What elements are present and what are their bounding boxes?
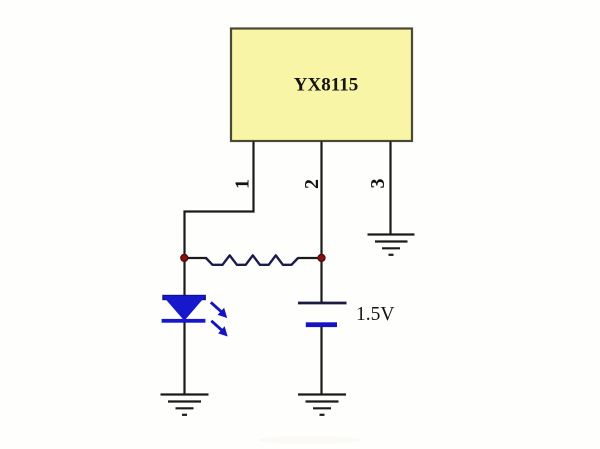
wire pin3 vertical from IC to ground	[389, 142, 391, 235]
wire pin2 vertical from IC to battery	[320, 142, 322, 303]
wire node-to-node horizontal right segment	[298, 257, 322, 259]
svg-text:1.5V: 1.5V	[356, 304, 394, 325]
svg-text:1: 1	[232, 179, 254, 189]
wire node-to-node horizontal left segment	[185, 257, 208, 259]
LED light arrow 1	[211, 302, 227, 318]
ground (pin 3)	[368, 235, 415, 255]
battery BT1 positive plate (long)	[298, 302, 347, 305]
LED D1 triangle	[163, 296, 206, 321]
faint artifact smudge bottom	[258, 436, 362, 444]
LED D1 anode top bar	[162, 295, 206, 300]
node A junction dot (left)	[181, 254, 188, 261]
wire pin1 vertical from IC	[185, 142, 254, 259]
wire battery to ground	[320, 327, 322, 395]
LED light arrow 2	[211, 321, 227, 337]
battery BT1 negative plate (short thick)	[306, 322, 337, 327]
ground (battery)	[298, 395, 346, 415]
wire node A to LED anode	[183, 258, 185, 297]
ground (LED)	[161, 395, 209, 415]
svg-text:YX8115: YX8115	[294, 75, 358, 96]
svg-text:3: 3	[367, 179, 389, 189]
node B junction dot (right)	[318, 254, 325, 261]
svg-text:2: 2	[301, 179, 323, 189]
LED D1 cathode bar	[162, 319, 206, 323]
inductor L1 zigzag	[206, 255, 298, 264]
wire LED cathode to ground	[183, 323, 185, 395]
IC U1 YX8115 body	[231, 29, 412, 142]
